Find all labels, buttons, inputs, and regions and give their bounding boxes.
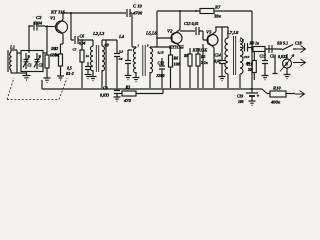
svg-text:R10: R10 [273,86,281,91]
svg-text:470: 470 [123,98,132,103]
svg-text:С1: С1 [28,64,32,68]
svg-text:R3: R3 [126,85,131,90]
svg-text:0,04: 0,04 [79,42,85,46]
svg-text:0,15: 0,15 [158,51,164,55]
svg-text:V2: V2 [167,29,173,34]
svg-text:39к: 39к [213,14,222,19]
svg-text:0,033: 0,033 [100,93,109,98]
svg-text:0,5: 0,5 [67,67,72,71]
svg-text:+: + [257,95,260,100]
svg-text:5,1к: 5,1к [201,61,208,65]
svg-text:С7: С7 [73,48,77,52]
svg-text:С2: С2 [39,64,43,68]
svg-text:4700: 4700 [132,11,143,16]
svg-text:3300: 3300 [156,73,165,78]
svg-text:1,5: 1,5 [240,39,245,43]
svg-text:V3: V3 [206,30,212,35]
svg-text:С8: С8 [103,86,108,91]
svg-text:С17: С17 [260,55,267,59]
svg-text:В: В [284,62,288,67]
svg-text:С15: С15 [244,55,250,59]
svg-text:R6: R6 [174,56,179,61]
svg-text:С9: С9 [119,57,123,61]
svg-text:С9: С9 [105,44,109,48]
svg-text:R9 1к: R9 1к [250,41,261,46]
svg-text:100: 100 [238,100,244,104]
svg-text:1к: 1к [55,53,59,57]
svg-text:50: 50 [248,68,252,72]
svg-text:0,04: 0,04 [34,21,43,26]
svg-text:100: 100 [174,62,180,67]
svg-text:С18: С18 [295,41,302,46]
svg-text:0,01: 0,01 [215,60,221,64]
svg-text:1: 1 [138,44,140,48]
svg-text:2: 2 [146,44,149,48]
svg-text:L1: L1 [9,45,15,50]
svg-text:С13 0,01: С13 0,01 [184,21,199,26]
svg-text:КТ315Б: КТ315Б [168,45,184,50]
svg-text:R2: R2 [54,47,58,51]
svg-text:С12: С12 [158,61,165,66]
svg-text:L7,L8: L7,L8 [226,30,239,35]
svg-text:R8: R8 [184,54,189,58]
svg-text:С21: С21 [270,55,276,59]
svg-text:Д2: Д2 [245,61,250,65]
svg-text:С3: С3 [36,15,42,20]
svg-text:3,3: 3,3 [118,50,124,54]
svg-text:SВ S.1: SВ S.1 [277,41,288,46]
svg-text:L2,L3: L2,L3 [92,31,105,36]
svg-text:L5,L6: L5,L6 [145,31,158,36]
svg-text:1к: 1к [86,54,90,58]
svg-text:С6: С6 [80,34,85,39]
svg-text:В1-2: В1-2 [65,72,74,76]
svg-text:L4: L4 [118,34,125,39]
svg-text:R7: R7 [215,5,221,10]
svg-text:400к: 400к [270,100,281,105]
svg-text:R5: R5 [201,55,206,59]
svg-text:V1: V1 [50,16,55,21]
svg-text:С19: С19 [237,95,243,99]
svg-text:0,033: 0,033 [278,54,287,59]
svg-text:КТ315Б: КТ315Б [192,48,208,53]
svg-text:С14: С14 [215,54,221,58]
svg-text:С 10: С 10 [133,4,143,9]
